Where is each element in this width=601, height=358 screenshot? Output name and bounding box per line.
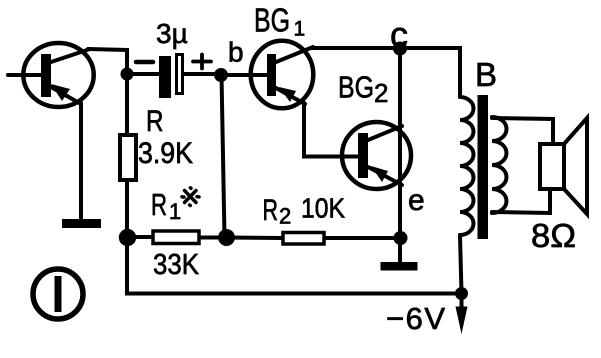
svg-text:B: B — [475, 56, 497, 93]
node (R1 right / R2 left / node-b rail) — [218, 229, 235, 246]
transistor Q (input, left) — [23, 43, 93, 107]
svg-text:3.9K: 3.9K — [138, 137, 193, 170]
svg-text:2: 2 — [279, 204, 291, 229]
svg-text:R: R — [146, 105, 164, 138]
svg-text:c: c — [390, 14, 408, 55]
svg-text:e: e — [408, 184, 425, 217]
transformer B primary winding — [460, 97, 474, 235]
node (supply junction) — [455, 287, 468, 300]
svg-text:1: 1 — [169, 199, 181, 224]
speaker 8 ohm — [540, 118, 587, 214]
resistor R2 10K — [227, 233, 402, 245]
ground (under Q emitter) — [62, 219, 101, 228]
transistor BG1 — [251, 41, 314, 109]
wire: Q collector to node A — [88, 49, 127, 72]
wire: transformer primary bottom to supply junction — [460, 235, 462, 294]
svg-text:b: b — [228, 37, 244, 68]
transformer B core — [478, 95, 489, 239]
resistor R1 33K — [127, 231, 227, 244]
node A (junction of Q collector, C1, R) — [121, 68, 134, 81]
capacitor C1 3u (electrolytic) — [159, 55, 183, 99]
figure marker (circled 1) — [33, 269, 83, 319]
wire: junction to ground — [398, 238, 402, 262]
label: minus polarity — [136, 60, 153, 65]
wire: node A to capacitor — [127, 72, 159, 76]
wire: Q emitter down to ground — [79, 103, 83, 218]
svg-text:1: 1 — [294, 18, 306, 41]
svg-text:3µ: 3µ — [156, 18, 188, 49]
label asterisk for R1 — [182, 188, 199, 206]
transistor BG2 — [342, 122, 411, 189]
svg-text:10K: 10K — [301, 193, 345, 224]
wire: node b down to R1/R junction rail — [222, 75, 225, 237]
wire: secondary top to speaker — [492, 118, 553, 144]
transformer B secondary winding — [492, 117, 507, 213]
svg-text:R: R — [151, 187, 167, 222]
resistor R 3.9K — [120, 74, 136, 237]
wire: capacitor to node b — [184, 72, 215, 76]
svg-text:−6V: −6V — [386, 301, 445, 336]
node c — [393, 42, 407, 56]
wire: node c down through BG2 collector to emitter junction — [398, 48, 402, 238]
wire: bottom supply rail — [127, 237, 462, 294]
wire: input lead — [8, 73, 41, 77]
node e junction (BG2 emitter / R2 / ground) — [394, 231, 408, 245]
node b — [214, 68, 228, 82]
svg-text:R: R — [263, 194, 279, 227]
wire: BG1 collector top rail to transformer — [311, 48, 460, 97]
supply arrow -6V — [456, 293, 468, 334]
wire: BG1 emitter to BG2 base — [304, 103, 358, 157]
svg-text:BG: BG — [254, 2, 290, 39]
svg-text:8Ω: 8Ω — [531, 217, 576, 254]
wire: secondary bottom to speaker — [492, 189, 550, 213]
label: plus polarity — [193, 55, 211, 69]
ground (under BG2 emitter) — [381, 262, 418, 271]
svg-text:33K: 33K — [153, 249, 200, 281]
wire: node b to BG1 base — [221, 73, 267, 77]
svg-text:2: 2 — [374, 78, 388, 108]
svg-text:BG: BG — [338, 70, 374, 105]
node (R bottom / R1 left / bottom rail) — [119, 229, 136, 246]
